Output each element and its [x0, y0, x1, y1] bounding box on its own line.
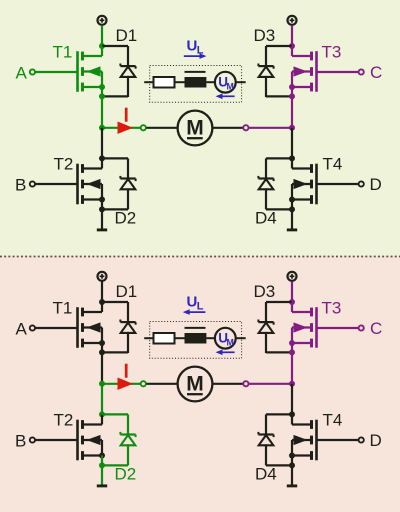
wire D4 anode down-right to main line: [266, 208, 292, 210]
wire motor node down to T2 drain node: [101, 384, 103, 415]
node D3 anode junction: [289, 93, 295, 99]
motor M: [178, 111, 213, 146]
terminal C ring: [359, 325, 364, 330]
wire motor to right ring: [212, 127, 242, 129]
terminal A ring: [30, 69, 35, 74]
svg-text:T4: T4: [323, 411, 343, 430]
node D1 anode junction: [99, 93, 105, 99]
svg-text:M: M: [227, 337, 234, 347]
wire D4 anode down-right to main line: [266, 464, 292, 466]
wire node V1' to D1: [102, 301, 128, 303]
arrow UL: [189, 311, 205, 313]
supply terminal + (left): [98, 272, 107, 281]
wire ring to motor: [147, 383, 178, 385]
wire node V2 to D3: [266, 45, 292, 47]
panel 2 background: [0, 256, 400, 512]
inductor L: [185, 77, 207, 88]
motor right terminal ring: [243, 125, 248, 130]
svg-text:C: C: [370, 319, 382, 338]
node T4 source: [289, 197, 295, 203]
wire C to T3 gate: [318, 327, 359, 329]
node T2 source: [99, 197, 105, 203]
transistor T2: [76, 420, 79, 461]
svg-text:B: B: [15, 432, 26, 451]
terminal A ring: [30, 325, 35, 330]
wire supply to node V2': [291, 281, 293, 302]
svg-text:D2: D2: [115, 209, 137, 228]
svg-text:B: B: [15, 176, 26, 195]
node T2 drain / D2 junction: [99, 411, 105, 417]
svg-text:T1: T1: [53, 43, 73, 62]
wire ring to right main line: [249, 383, 292, 385]
svg-text:D1: D1: [116, 282, 138, 301]
wire A to T1 gate: [35, 327, 76, 329]
node motor left: [99, 125, 105, 131]
svg-text:T2: T2: [54, 155, 74, 174]
ground (left): [101, 209, 103, 228]
svg-text:D4: D4: [255, 465, 277, 484]
wire node to D4: [266, 413, 292, 415]
node D2 anode junction: [99, 206, 105, 212]
svg-text:T4: T4: [323, 155, 343, 174]
wire B to T2 gate: [35, 183, 76, 185]
wire L to UM: [206, 81, 215, 83]
node D2 anode junction: [99, 462, 105, 468]
wire ring to right main line: [249, 127, 292, 129]
wire R to L: [175, 81, 185, 83]
motor left terminal ring: [141, 125, 146, 130]
node V1' (T1 drain / D1 junction): [99, 299, 105, 305]
svg-text:D3: D3: [254, 282, 276, 301]
wire motor node to terminal ring: [102, 383, 140, 385]
svg-text:C: C: [370, 63, 382, 82]
wire D1 anode down-left to main line: [102, 351, 128, 353]
current arrow I: [118, 122, 132, 133]
supply terminal + (right): [288, 16, 297, 25]
wire T4 source to D4 junction: [291, 200, 293, 210]
voltage source UM: [215, 72, 236, 93]
voltage source UM: [215, 328, 236, 349]
svg-text:A: A: [16, 64, 28, 83]
wire D to T4 gate: [318, 183, 359, 185]
load model dashed box: [150, 66, 242, 103]
svg-text:T2: T2: [54, 411, 74, 430]
wire UM right stub: [236, 81, 246, 83]
wire ring to motor: [147, 127, 178, 129]
inductor core line: [185, 327, 206, 329]
svg-text:A: A: [16, 320, 28, 339]
arrow UM: [222, 95, 235, 97]
node D3 anode junction: [289, 349, 295, 355]
motor left terminal ring: [141, 381, 146, 386]
inductor L: [185, 333, 207, 344]
label I: [125, 108, 128, 122]
transistor T2: [76, 164, 79, 205]
wire C to T3 gate: [318, 71, 359, 73]
node T2 drain / D2 junction: [99, 155, 105, 161]
wire D2 anode down-left to main line: [102, 464, 128, 466]
inductor core line: [185, 71, 206, 73]
transistor T1: [76, 51, 79, 92]
node V2 (T3 drain / D3 junction): [289, 43, 295, 49]
diode D1: [127, 302, 129, 322]
dotted separator between panels: [0, 256, 400, 258]
arrow UL: [184, 55, 200, 57]
wire motor node to terminal ring: [102, 127, 140, 129]
transistor T1: [76, 307, 79, 348]
svg-text:D: D: [370, 175, 382, 194]
wire D2 anode down-left to main line: [102, 208, 128, 210]
wire T1 source to motor node: [101, 87, 103, 128]
node T3 source: [289, 84, 295, 90]
node V2' (T3 drain / D3 junction): [289, 299, 295, 305]
node T4 drain / D4 junction: [289, 155, 295, 161]
diode D4: [265, 414, 267, 434]
svg-text:D1: D1: [116, 26, 138, 45]
resistor R: [154, 77, 175, 88]
transistor T4: [315, 420, 318, 461]
svg-text:M: M: [227, 81, 234, 91]
load model dashed box: [150, 322, 242, 359]
wire motor to right ring: [212, 383, 242, 385]
diode D3: [265, 46, 267, 66]
resistor R: [154, 333, 175, 344]
svg-text:M: M: [186, 117, 204, 140]
wire motor node down to T4 drain node: [291, 384, 293, 415]
wire B to T2 gate: [35, 439, 76, 441]
wire D1 anode down-left to main line: [102, 95, 128, 97]
svg-text:D3: D3: [254, 26, 276, 45]
node motor left: [99, 381, 105, 387]
wire D3 anode down-right to main line: [266, 351, 292, 353]
node D4 anode junction: [289, 206, 295, 212]
arrow UM: [222, 351, 235, 353]
node V1 (T1 drain / D1 junction): [99, 43, 105, 49]
wire T1 source to motor node: [101, 343, 103, 384]
terminal D ring: [359, 437, 364, 442]
wire supply to node V2: [291, 25, 293, 46]
motor M: [178, 367, 213, 402]
node D1 anode junction: [99, 349, 105, 355]
wire motor node down to T2 drain node: [101, 128, 103, 159]
supply terminal + (right): [288, 272, 297, 281]
panel 1 background: [0, 0, 400, 256]
wire T2 source to D2 junction: [101, 200, 103, 210]
diode D2: [127, 158, 129, 178]
supply terminal + (left): [98, 16, 107, 25]
wire node V1 to D1: [102, 45, 128, 47]
svg-text:T3: T3: [322, 299, 342, 318]
wire T3 source to motor node: [291, 87, 293, 128]
node motor right: [289, 381, 295, 387]
wire D to T4 gate: [318, 439, 359, 441]
wire node to D2: [102, 157, 128, 159]
wire UM right stub: [236, 337, 246, 339]
wire load left stub: [144, 81, 153, 83]
wire R to L: [175, 337, 185, 339]
svg-text:D4: D4: [255, 209, 277, 228]
svg-text:D: D: [370, 431, 382, 450]
wire node to D2: [102, 413, 128, 415]
wire node to D4: [266, 157, 292, 159]
svg-text:T1: T1: [53, 299, 73, 318]
label I: [125, 364, 128, 378]
svg-text:D2: D2: [115, 465, 137, 484]
node T4 source: [289, 453, 295, 459]
wire motor node down to T4 drain node: [291, 128, 293, 159]
terminal B ring: [30, 437, 35, 442]
diode D4: [265, 158, 267, 178]
wire L to UM: [206, 337, 215, 339]
ground (left): [101, 465, 103, 484]
svg-text:T3: T3: [322, 43, 342, 62]
wire T2 source to D2 junction: [101, 456, 103, 466]
node T3 source: [289, 340, 295, 346]
ground (right): [291, 465, 293, 484]
wire T3 source to motor node: [291, 343, 293, 384]
terminal B ring: [30, 181, 35, 186]
current arrow I: [118, 378, 132, 389]
transistor T4: [315, 164, 318, 205]
wire supply to node V1: [101, 25, 103, 46]
node T4 drain / D4 junction: [289, 411, 295, 417]
wire D3 anode down-right to main line: [266, 95, 292, 97]
node T1 source: [99, 340, 105, 346]
terminal C ring: [359, 69, 364, 74]
diode D2: [127, 414, 129, 434]
transistor T3: [315, 307, 318, 348]
wire A to T1 gate: [35, 71, 76, 73]
ground (right): [291, 209, 293, 228]
svg-text:L: L: [197, 301, 204, 313]
terminal D ring: [359, 181, 364, 186]
node T2 source: [99, 453, 105, 459]
node T1 source: [99, 84, 105, 90]
transistor T3: [315, 51, 318, 92]
diode D3: [265, 302, 267, 322]
wire node V2' to D3: [266, 301, 292, 303]
node D4 anode junction: [289, 462, 295, 468]
motor right terminal ring: [243, 381, 248, 386]
wire supply to node V1': [101, 281, 103, 302]
svg-text:M: M: [186, 373, 204, 396]
node motor right: [289, 125, 295, 131]
wire T4 source to D4 junction: [291, 456, 293, 466]
wire load left stub: [144, 337, 153, 339]
diode D1: [127, 46, 129, 66]
